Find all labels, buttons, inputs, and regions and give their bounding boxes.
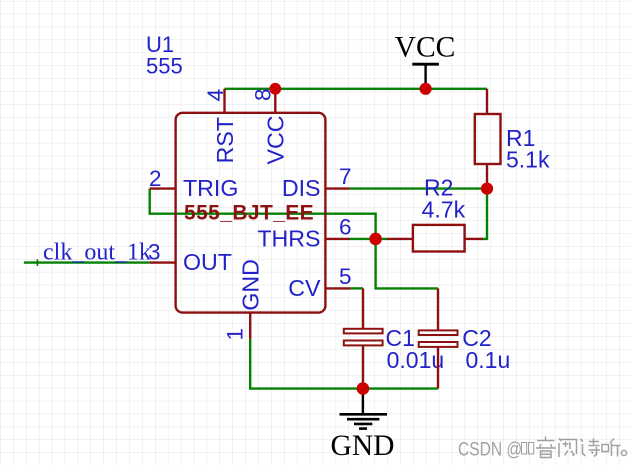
pin number 5 <box>339 264 352 289</box>
pin 8 VCC stub <box>274 89 276 113</box>
svg-text:6: 6 <box>339 214 352 239</box>
svg-text:CV: CV <box>288 275 321 301</box>
junction at pin8/VCC rail <box>269 83 281 95</box>
pin name GND <box>238 259 264 311</box>
net VCC text <box>395 32 456 64</box>
pin 7 DIS stub <box>325 187 349 189</box>
value 4.7k <box>422 197 466 223</box>
pin number 3 <box>148 240 161 265</box>
net label clk_out_1k <box>43 240 151 266</box>
wire: R1 junction down to R2 right lead <box>481 189 487 239</box>
pin name DIS <box>282 175 321 201</box>
pin 2 TRIG stub <box>150 187 176 189</box>
svg-text:DIS: DIS <box>282 175 321 201</box>
svg-text:RST: RST <box>212 117 238 163</box>
capacitor C2 <box>419 288 458 388</box>
pin 4 RST stub <box>223 89 225 113</box>
label R2 <box>424 175 453 201</box>
pin 5 CV stub <box>325 287 350 289</box>
resistor R1 <box>475 89 501 185</box>
power VCC symbol <box>412 64 439 89</box>
svg-text:VCC: VCC <box>263 116 289 165</box>
junction R1 bottom / DIS <box>481 183 493 195</box>
svg-text:OUT: OUT <box>183 249 232 275</box>
pin name CV <box>288 275 321 301</box>
svg-text:4.7k: 4.7k <box>422 197 466 223</box>
pin number 8 <box>250 88 275 101</box>
value 0.01u <box>387 347 445 373</box>
pin 3 OUT stub <box>150 261 176 263</box>
IC U1 555 body <box>176 113 326 313</box>
pin number 2 <box>149 166 162 191</box>
label C2 <box>462 325 491 351</box>
wire: THRS row to R2 junction <box>350 238 388 240</box>
svg-text:clk_out_1k: clk_out_1k <box>43 240 151 266</box>
junction at VCC symbol <box>420 83 432 95</box>
svg-text:555_BJT_EE: 555_BJT_EE <box>184 202 314 225</box>
pin 1 GND stub <box>249 313 251 339</box>
svg-text:VCC: VCC <box>395 32 456 64</box>
svg-text:5: 5 <box>339 264 352 289</box>
value 555 <box>146 53 183 78</box>
pin number 1 <box>223 328 248 341</box>
pin name VCC <box>263 116 289 165</box>
svg-text:2: 2 <box>149 166 162 191</box>
wire: GND bottom rail <box>250 339 438 389</box>
pin name THRS <box>257 225 320 251</box>
svg-text:0.1u: 0.1u <box>466 347 511 373</box>
svg-text:4: 4 <box>203 89 228 102</box>
junction GND rail / C1 <box>357 382 370 395</box>
wire: DIS to R1 bottom junction <box>350 187 488 189</box>
svg-text:1: 1 <box>223 328 248 341</box>
wire: OUT net clk_out_1k <box>24 259 150 266</box>
svg-text:7: 7 <box>339 164 352 189</box>
pin 6 THRS stub <box>325 238 349 240</box>
pin number 4 <box>203 89 228 102</box>
label C1 <box>386 325 415 351</box>
value 5.1k <box>506 147 550 173</box>
pin name OUT <box>183 249 232 275</box>
wire: TRIG to THRS loop <box>150 189 438 289</box>
pin name RST <box>212 117 238 163</box>
net GND text <box>331 430 395 462</box>
wire: VCC top rail pin4 to R1 <box>225 88 488 90</box>
resistor R2 <box>387 225 483 252</box>
svg-text:5.1k: 5.1k <box>506 147 550 173</box>
part name 555_BJT_EE (struck by wire) <box>184 202 314 225</box>
pin name TRIG <box>183 175 238 201</box>
svg-text:555: 555 <box>146 53 183 78</box>
svg-text:GND: GND <box>331 430 395 462</box>
svg-text:GND: GND <box>238 259 264 311</box>
wire: CV to C1 <box>351 287 363 289</box>
designator U1 <box>146 32 174 57</box>
watermark CSDN <box>458 437 627 460</box>
svg-text:CSDN @: CSDN @ <box>458 438 522 460</box>
label R1 <box>506 125 535 151</box>
junction THRS / R2 <box>369 233 382 246</box>
svg-text:0.01u: 0.01u <box>387 347 445 373</box>
svg-text:THRS: THRS <box>257 225 320 251</box>
svg-text:TRIG: TRIG <box>183 175 238 201</box>
ground symbol <box>340 389 388 429</box>
pin number 6 <box>339 214 352 239</box>
capacitor C1 <box>344 288 383 388</box>
value 0.1u <box>466 347 511 373</box>
pin number 7 <box>339 164 352 189</box>
